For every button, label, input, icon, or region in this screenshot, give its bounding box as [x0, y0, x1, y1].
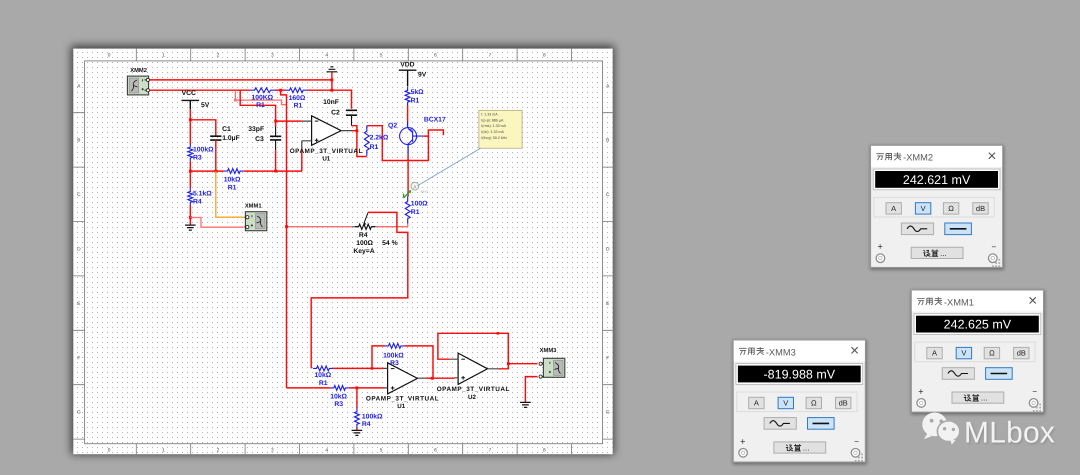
svg-text:100KΩ: 100KΩ: [251, 95, 273, 102]
svg-text:U1: U1: [322, 155, 330, 162]
svg-text:R4: R4: [359, 232, 368, 239]
svg-text:G: G: [77, 410, 81, 416]
wire C1 bottom to node: [215, 140, 217, 171]
svg-text:VDD: VDD: [400, 61, 414, 68]
svg-text:I(rms): 1.33 mA: I(rms): 1.33 mA: [481, 124, 506, 128]
dialog mode buttons: [737, 392, 857, 412]
dialog title bar: [734, 341, 865, 362]
wire XMM2 plus to ground node: [150, 79, 332, 81]
resistor R1 160Ω: [286, 88, 307, 110]
wire U2 output to XMM3: [499, 364, 538, 369]
svg-text:10nF: 10nF: [323, 99, 339, 106]
dialog title bar: [871, 146, 1002, 167]
svg-text:D: D: [77, 247, 81, 253]
svg-text:5kΩ: 5kΩ: [411, 89, 425, 96]
junction between 100K and 160: [275, 89, 286, 91]
potentiometer R4 wires (light): [287, 226, 353, 228]
svg-text:-XMM2: -XMM2: [903, 153, 933, 163]
resistor R1 100Ω: [405, 197, 428, 224]
VCC supply: [182, 90, 210, 109]
ground (under R4): [352, 430, 363, 435]
svg-text:B: B: [606, 138, 609, 144]
dialog settings button: [952, 392, 1004, 403]
svg-text:R1: R1: [411, 98, 420, 105]
svg-text:R1: R1: [411, 209, 420, 216]
resistor R1 5kΩ: [405, 87, 424, 105]
wire XMM2-minus detour (light): [234, 90, 236, 100]
svg-text:MLbox: MLbox: [964, 417, 1055, 450]
orange wire C1 node to XMM1 plus: [216, 171, 244, 217]
dialog waveform buttons: [901, 223, 933, 235]
current probe: [404, 182, 429, 198]
wire C2 bottom to opamp output: [352, 126, 367, 157]
resistor R3 10kΩ (bottom): [330, 386, 349, 408]
svg-text:100kΩ: 100kΩ: [193, 147, 214, 154]
svg-text:Ω: Ω: [811, 399, 817, 408]
svg-text:242.621 mV: 242.621 mV: [903, 173, 971, 187]
svg-text:I(freq): 50.2 kHz: I(freq): 50.2 kHz: [481, 136, 507, 140]
capacitor C3 33pF: [248, 126, 281, 151]
op-amp U2: [437, 353, 510, 401]
svg-text:−: −: [854, 437, 859, 446]
svg-text:5: 5: [380, 447, 383, 453]
multimeter dialog XMM3: [733, 340, 867, 465]
dialog waveform buttons: [764, 418, 796, 430]
yellow measurement note: [418, 110, 523, 186]
svg-text:XMM1: XMM1: [245, 203, 263, 209]
svg-text:BCX17: BCX17: [424, 117, 446, 124]
svg-text:V: V: [783, 399, 788, 408]
resistor R4 5.1kΩ: [188, 188, 212, 205]
svg-text:160Ω: 160Ω: [289, 95, 306, 102]
svg-text:V: V: [921, 204, 926, 213]
svg-text:C3: C3: [255, 136, 264, 143]
svg-text:R1: R1: [256, 102, 265, 109]
svg-text:R1: R1: [228, 184, 237, 191]
svg-text:4: 4: [325, 447, 328, 453]
resistor R1 10kΩ (top): [224, 169, 244, 192]
svg-text:33pF: 33pF: [248, 126, 264, 133]
svg-text:E: E: [606, 301, 609, 307]
svg-text:F: F: [77, 355, 80, 361]
svg-text:VCC: VCC: [182, 90, 196, 97]
wire minus input rail: [276, 120, 302, 122]
svg-text:1.0µF: 1.0µF: [222, 135, 240, 142]
wire 5k to Q2: [407, 106, 409, 122]
svg-text:6: 6: [434, 53, 437, 59]
svg-text:Ω: Ω: [948, 204, 954, 213]
svg-text:5V: 5V: [201, 102, 210, 109]
wire tap to long vertical net: [281, 90, 287, 388]
wire C3 bottom to rail: [275, 150, 277, 171]
svg-text:5: 5: [380, 53, 383, 59]
svg-text:R1: R1: [294, 102, 303, 109]
multimeter instrument XMM1: [244, 203, 266, 230]
wire VCC node to C1: [190, 120, 216, 136]
schematic sheet: [73, 49, 612, 455]
svg-text:Q2: Q2: [388, 122, 397, 129]
wire output stub: [352, 130, 358, 132]
svg-text:+: +: [877, 242, 882, 252]
svg-text:G: G: [606, 410, 610, 416]
transistor Q2 BCX17: [388, 117, 446, 145]
wire XMM3 minus to ground: [525, 377, 537, 403]
svg-text:2: 2: [217, 447, 220, 453]
long rail to 10k R3: [287, 387, 331, 389]
svg-text:...: ...: [803, 444, 810, 453]
svg-text:I(p-p): 885 µA: I(p-p): 885 µA: [481, 118, 504, 122]
svg-text:-819.988 mV: -819.988 mV: [764, 368, 836, 382]
svg-text:OPAMP_3T_VIRTUAL: OPAMP_3T_VIRTUAL: [290, 148, 363, 155]
wire wiper to bottom stage: [311, 212, 408, 368]
wire 100kΩ R4 to ground: [356, 388, 358, 408]
svg-text:2.2kΩ: 2.2kΩ: [370, 135, 389, 142]
multimeter dialog XMM2: [870, 145, 1004, 270]
svg-text:2: 2: [217, 53, 220, 59]
ground (top, at XMM2 net): [331, 72, 333, 80]
WeChat logo watermark: [922, 413, 960, 445]
dialog mode buttons: [915, 342, 1035, 362]
svg-text:E: E: [77, 301, 80, 307]
svg-text:242.625 mV: 242.625 mV: [944, 318, 1012, 332]
svg-text:A: A: [891, 204, 896, 213]
wire ground node to XMM1 minus: [190, 218, 244, 228]
wire R3 to R4: [189, 161, 191, 188]
svg-text:1: 1: [162, 53, 165, 59]
svg-text:XMM3: XMM3: [540, 347, 558, 354]
resistor R4 100kΩ (bottom): [355, 408, 384, 428]
svg-text:XMM2: XMM2: [130, 67, 147, 74]
wire XMM2 minus to R1 chain: [150, 89, 251, 91]
svg-text:R3: R3: [334, 401, 343, 408]
svg-text:5.1kΩ: 5.1kΩ: [193, 191, 212, 198]
svg-text:C2: C2: [331, 110, 340, 117]
svg-text:-XMM1: -XMM1: [944, 297, 974, 307]
svg-text:4: 4: [325, 53, 328, 59]
svg-text:7: 7: [489, 447, 492, 453]
svg-text:100Ω: 100Ω: [411, 200, 428, 207]
rail to 10k and opamp plus: [190, 170, 224, 172]
svg-text:10kΩ: 10kΩ: [224, 176, 241, 183]
svg-text:NH1: NH1: [421, 190, 429, 194]
svg-text:OPAMP_3T_VIRTUAL: OPAMP_3T_VIRTUAL: [366, 396, 439, 403]
wire U1b output to U2 plus: [426, 377, 455, 379]
svg-text:0: 0: [108, 447, 111, 453]
svg-text:54 %: 54 %: [382, 240, 398, 247]
svg-text:−: −: [992, 242, 997, 251]
svg-text:dB: dB: [976, 204, 985, 213]
ground (XMM3): [520, 402, 531, 407]
svg-text:R4: R4: [193, 199, 202, 206]
svg-text:...: ...: [940, 249, 947, 258]
dialog display: [736, 364, 863, 385]
svg-text:−: −: [1032, 387, 1037, 396]
svg-text:R1: R1: [319, 380, 328, 387]
resistor R1 100KΩ: [250, 88, 275, 109]
schematic sheet shadow: [71, 46, 614, 455]
dialog waveform buttons: [942, 368, 974, 380]
dialog title bar: [912, 291, 1043, 312]
svg-text:R1: R1: [370, 144, 379, 151]
svg-text:U2: U2: [468, 394, 476, 401]
svg-text:100kΩ: 100kΩ: [383, 352, 404, 359]
resistor R3 100kΩ: [188, 144, 214, 162]
svg-text:0: 0: [108, 53, 111, 59]
svg-text:U1: U1: [397, 403, 405, 410]
capacitor C1 1.0µF: [210, 126, 240, 142]
wire Q2 base loop to 2.2k: [367, 126, 429, 161]
dialog display: [914, 314, 1041, 335]
wire VCC down: [189, 109, 191, 144]
multimeter instrument XMM3: [539, 347, 565, 378]
dialog mode buttons: [874, 197, 994, 217]
svg-text:C: C: [77, 192, 81, 198]
svg-text:7: 7: [489, 53, 492, 59]
svg-text:8: 8: [543, 447, 546, 453]
svg-text:D: D: [606, 247, 610, 253]
resistor R1 10kΩ (bottom): [313, 366, 333, 387]
svg-text:R4: R4: [362, 421, 371, 428]
svg-text:9V: 9V: [418, 71, 427, 78]
resistor R1 2.2kΩ: [364, 126, 388, 156]
svg-text:3: 3: [271, 447, 274, 453]
svg-text:dB: dB: [1017, 349, 1026, 358]
wire base stub: [428, 130, 443, 136]
svg-text:3: 3: [271, 53, 274, 59]
svg-text:I(dc): 1.33 mA: I(dc): 1.33 mA: [481, 130, 504, 134]
svg-text:-XMM3: -XMM3: [766, 347, 796, 357]
op-amp U1 (top): [290, 116, 363, 163]
svg-text:dB: dB: [839, 399, 848, 408]
svg-text:F: F: [606, 355, 609, 361]
svg-text:A: A: [754, 399, 759, 408]
dialog settings button: [774, 442, 826, 453]
svg-text:I: 1.33 mA: I: 1.33 mA: [481, 112, 498, 116]
wire 160Ω to C2: [307, 90, 352, 109]
feedback 100kΩ R3: [372, 346, 385, 369]
svg-text:C1: C1: [222, 126, 231, 133]
wire Q2 emitter down: [407, 145, 409, 155]
wire plus input down to rail: [301, 151, 303, 171]
wire to U1b minus: [333, 367, 384, 369]
svg-text:1: 1: [162, 447, 165, 453]
capacitor C2 10nF: [323, 99, 357, 126]
svg-text:+: +: [740, 436, 745, 446]
svg-text:Ω: Ω: [989, 349, 995, 358]
svg-text:100kΩ: 100kΩ: [362, 413, 383, 420]
svg-text:+: +: [918, 386, 923, 396]
wire R4 to ground: [189, 206, 191, 225]
U2 feedback loop: [438, 333, 508, 363]
ground (bottom left): [185, 225, 196, 230]
VDD supply: [399, 61, 427, 86]
svg-text:C: C: [606, 192, 610, 198]
multimeter dialog XMM1: [911, 290, 1045, 415]
svg-text:Key=A: Key=A: [353, 248, 374, 255]
svg-text:V: V: [961, 349, 966, 358]
dialog display: [873, 169, 1000, 190]
wire 100K left lead tap down to C3 node: [240, 90, 275, 121]
svg-text:8: 8: [543, 53, 546, 59]
svg-text:10kΩ: 10kΩ: [330, 393, 347, 400]
svg-text:10kΩ: 10kΩ: [314, 372, 331, 379]
svg-text:R3: R3: [193, 155, 202, 162]
svg-text:A: A: [932, 349, 937, 358]
multimeter instrument XMM2: [127, 67, 149, 95]
svg-text:...: ...: [981, 394, 988, 403]
dialog settings button: [911, 247, 963, 258]
svg-text:B: B: [77, 138, 80, 144]
sheet inner border: [85, 61, 603, 444]
svg-text:OPAMP_3T_VIRTUAL: OPAMP_3T_VIRTUAL: [437, 386, 510, 393]
svg-text:100Ω: 100Ω: [356, 240, 373, 247]
svg-text:6: 6: [434, 447, 437, 453]
potentiometer R4 100Ω: [352, 213, 398, 255]
op-amp U1 (bottom): [366, 363, 439, 410]
